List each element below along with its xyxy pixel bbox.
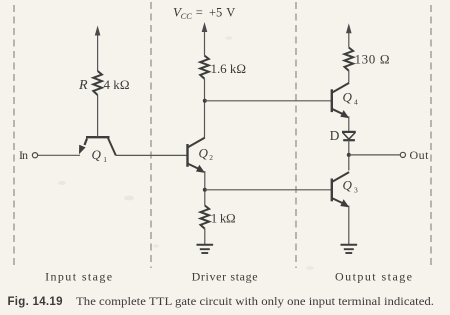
svg-text:Q: Q (199, 145, 209, 160)
svg-text:Q: Q (92, 147, 102, 162)
wire In to Q1 emitter (38, 154, 80, 156)
transistor Q4 (332, 83, 350, 118)
svg-text:The complete TTL gate circuit: The complete TTL gate circuit with only … (76, 296, 434, 308)
resistor 1.6 kOhm (200, 56, 209, 79)
ground (output stage) (341, 245, 358, 253)
svg-text:2: 2 (209, 153, 213, 162)
stage boundary dashed line (input/driver) (150, 2, 152, 268)
svg-text:Out: Out (410, 148, 430, 162)
wire Q2 emitter to 1k node (204, 171, 206, 206)
svg-text:Input stage: Input stage (45, 269, 112, 283)
svg-text:In: In (19, 148, 28, 162)
svg-text:130 Ω: 130 Ω (355, 51, 390, 66)
ground (driver stage) (197, 245, 214, 253)
resistor R 4 kOhm (93, 71, 102, 95)
Vcc arrow (driver stage) (204, 31, 206, 56)
wire 130 resistor to Q4 collector (348, 71, 350, 83)
wire 1.6k resistor to Q2 collector (204, 79, 206, 138)
svg-text:1.6 kΩ: 1.6 kΩ (211, 61, 247, 76)
svg-text:D: D (330, 128, 340, 143)
svg-text:Q: Q (343, 178, 353, 193)
stage boundary dashed line (far right) (430, 5, 432, 266)
wire Q3 emitter to ground (348, 206, 350, 245)
transistor Q3 (332, 172, 350, 207)
junction dot (Q2 collector node) (203, 99, 207, 103)
transistor Q1 (79, 137, 116, 155)
svg-text:R: R (78, 78, 88, 93)
svg-text:4: 4 (354, 98, 358, 107)
junction dot (Q2 emitter node) (203, 188, 207, 192)
resistor 130 Ohm (345, 48, 354, 71)
svg-text:4 kΩ: 4 kΩ (104, 77, 130, 92)
terminal In (32, 153, 37, 158)
svg-text:Q: Q (343, 90, 353, 105)
junction dot (output node) (347, 153, 351, 157)
svg-text:Fig. 14.19: Fig. 14.19 (8, 296, 63, 308)
transistor Q2 (188, 138, 206, 173)
wire 1k resistor to ground (204, 229, 206, 245)
wire output node to Out terminal (349, 154, 401, 156)
wire diode to output node (348, 140, 350, 170)
resistor 1 kOhm (201, 206, 210, 229)
svg-text:Driver stage: Driver stage (192, 269, 258, 283)
diode D (342, 132, 356, 140)
faint paper smudges (texture) (58, 36, 314, 270)
svg-text:3: 3 (354, 186, 358, 195)
terminal Out (400, 152, 405, 157)
stage boundary dashed line (driver/output) (295, 2, 297, 268)
wire Q2 emitter node to Q3 base (205, 189, 331, 191)
Vcc arrow (input stage) (97, 33, 99, 71)
svg-text:1: 1 (103, 155, 107, 164)
stage boundary dashed line (far left) (13, 5, 15, 266)
Vcc arrow (output stage) (348, 33, 350, 48)
svg-text:Output stage: Output stage (335, 269, 412, 283)
svg-text:1 kΩ: 1 kΩ (211, 210, 236, 225)
wire Q1 base to resistor R (97, 95, 99, 137)
wire Q2 collector node to Q4 base (205, 100, 331, 102)
wire Q1 collector to Q2 base (116, 154, 187, 156)
wire Q4 emitter to diode D (348, 116, 350, 131)
